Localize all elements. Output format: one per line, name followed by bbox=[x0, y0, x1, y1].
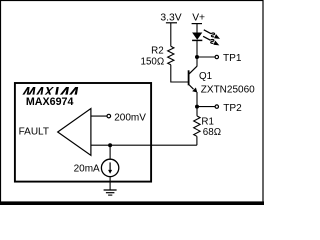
svg-text:20mA: 20mA bbox=[74, 164, 100, 175]
svg-text:200mV: 200mV bbox=[114, 113, 146, 124]
transistor Q1 base bar bbox=[188, 70, 190, 85]
wire collector up bbox=[196, 57, 198, 66]
resistor R2 bbox=[168, 46, 174, 65]
svg-text:FAULT: FAULT bbox=[19, 127, 49, 138]
outer border frame bbox=[1, 1, 264, 205]
LED light arrow 1 bbox=[203, 28, 222, 41]
wire 3.3V down bbox=[170, 23, 172, 47]
bottom black bar bbox=[0, 201, 264, 205]
current source I1 bbox=[101, 159, 118, 176]
MAXIM logo bbox=[22, 87, 78, 95]
wire TP2 bbox=[197, 106, 215, 108]
transistor Q1 emitter diagonal bbox=[189, 85, 194, 90]
wire sense input bbox=[91, 144, 197, 146]
transistor Q1 collector diagonal bbox=[189, 66, 197, 74]
svg-text:Q1: Q1 bbox=[199, 71, 212, 82]
test point TP2 bbox=[215, 105, 218, 108]
svg-text:V+: V+ bbox=[192, 13, 205, 24]
svg-text:R2: R2 bbox=[151, 45, 164, 56]
wire TP2 node to R1 bbox=[196, 107, 198, 116]
svg-text:3.3V: 3.3V bbox=[160, 12, 181, 23]
node TP2 junction bbox=[195, 105, 199, 109]
wire R1 bottom bbox=[196, 136, 198, 145]
wire 200mV stub bbox=[91, 115, 107, 117]
node TP1 junction bbox=[195, 55, 199, 59]
ground bbox=[104, 189, 117, 191]
resistor R1 bbox=[194, 116, 200, 136]
op-amp comparator bbox=[58, 109, 91, 156]
wire emitter down bbox=[196, 92, 198, 107]
wire TP1 bbox=[197, 56, 215, 58]
wire V+ down bbox=[196, 24, 198, 33]
wire ground stub bbox=[109, 177, 111, 190]
svg-text:TP1: TP1 bbox=[223, 53, 242, 64]
LED light arrow 2 bbox=[202, 35, 221, 48]
IC box U1 MAX6974 bbox=[15, 83, 151, 182]
wire R2 to base bbox=[171, 65, 188, 82]
wire LED to node bbox=[196, 40, 198, 57]
svg-text:68Ω: 68Ω bbox=[203, 127, 221, 138]
LED D1 bbox=[192, 33, 202, 40]
test point TP1 bbox=[215, 55, 218, 58]
current source arrow bbox=[109, 162, 111, 170]
svg-text:ZXTN25060: ZXTN25060 bbox=[201, 85, 255, 96]
terminal 200mV bbox=[107, 114, 111, 118]
svg-text:MAX6974: MAX6974 bbox=[26, 96, 74, 108]
svg-text:150Ω: 150Ω bbox=[141, 57, 165, 68]
svg-text:TP2: TP2 bbox=[223, 103, 242, 114]
wire to current source bbox=[109, 145, 111, 159]
power rail 3.3V bbox=[166, 22, 177, 24]
node junction current source bbox=[108, 143, 112, 147]
power rail V+ bbox=[192, 23, 202, 25]
